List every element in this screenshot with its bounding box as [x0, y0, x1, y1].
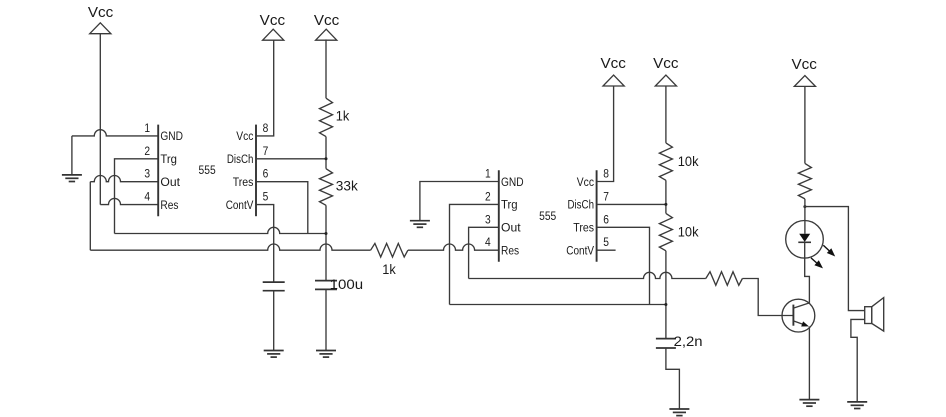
svg-text:8: 8: [263, 121, 269, 135]
wire R1 to DisCh junction to R2: [325, 137, 327, 169]
svg-text:7: 7: [603, 189, 609, 203]
wire pin1 GND to ground with hop: [72, 130, 158, 136]
capacitor C3 2,2n: [656, 339, 676, 348]
svg-text:Res: Res: [501, 244, 519, 258]
svg-text:4: 4: [485, 235, 491, 249]
capacitor C1: [263, 282, 285, 291]
speaker LS1 cone: [872, 298, 884, 332]
svg-text:1: 1: [485, 167, 491, 181]
resistor R5 10k vertical: [659, 213, 672, 250]
wire Res pin4 tied to Vcc stem: [100, 198, 158, 204]
junction dot 4: [664, 303, 667, 306]
ground under C2: [316, 351, 336, 358]
ground under second 555: [410, 221, 430, 228]
wire pin1 GND2 left and down: [420, 182, 499, 221]
junction dot 3: [664, 203, 667, 206]
wire Out2 pin3 left and down: [469, 227, 499, 278]
svg-text:2: 2: [144, 144, 150, 158]
LED light arrow 2: [811, 258, 817, 263]
svg-text:Vcc: Vcc: [88, 4, 114, 21]
svg-text:Out: Out: [160, 175, 180, 189]
wire node B Out line to 1k resistor: [90, 244, 370, 250]
svg-text:8: 8: [603, 167, 609, 181]
wire R2 to node A junction down to C2: [325, 205, 327, 280]
svg-text:Vcc: Vcc: [577, 175, 594, 189]
wire R7 to LED node: [804, 199, 806, 234]
power Vcc V4: [601, 55, 627, 86]
wire DisCh pin7 to resistor junction: [256, 158, 326, 160]
wire Trg2 pin2 left and down to node C: [450, 204, 499, 304]
transistor Q1 collector diagonal: [793, 303, 809, 308]
ground under C3: [669, 409, 689, 416]
svg-text:DisCh: DisCh: [227, 152, 254, 166]
svg-text:1k: 1k: [336, 107, 350, 123]
wire V3 to resistor R1: [325, 39, 327, 98]
svg-text:DisCh: DisCh: [568, 198, 595, 212]
svg-text:4: 4: [144, 190, 150, 204]
LED D1 circle: [786, 221, 824, 259]
svg-text:Vcc: Vcc: [653, 55, 679, 72]
op-amp U2 right bar: [596, 170, 598, 262]
svg-text:Vcc: Vcc: [260, 12, 286, 29]
svg-text:555: 555: [539, 209, 556, 223]
svg-text:Trg: Trg: [160, 152, 177, 166]
power Vcc V3: [314, 12, 340, 40]
wire C2 to ground: [325, 289, 327, 350]
resistor R1 1k vertical: [320, 98, 333, 136]
wire node A horizontal Trg-Tres-cap net: [115, 227, 327, 233]
wire R6 to transistor base: [742, 279, 793, 316]
wire C1 to ground: [273, 291, 275, 351]
wire node C horizontal to cap net: [450, 304, 666, 306]
wire LED cathode to collector: [805, 242, 810, 303]
svg-text:Out: Out: [501, 221, 521, 235]
svg-text:ContV: ContV: [566, 244, 594, 258]
resistor R2 33k vertical: [320, 169, 333, 206]
resistor R4 10k vertical: [659, 143, 672, 180]
svg-text:10k: 10k: [678, 223, 700, 239]
svg-text:5: 5: [603, 235, 609, 249]
ground under Q1: [799, 400, 819, 407]
svg-text:3: 3: [144, 167, 150, 181]
resistor R7 vertical: [798, 163, 811, 199]
wire pin8 Vcc2 stub up: [597, 86, 614, 182]
wire 1k to Res pin4 of second 555 with hops: [408, 244, 499, 250]
junction dot 2: [325, 232, 328, 235]
op-amp U1 left bar: [157, 125, 159, 217]
svg-text:Tres: Tres: [233, 175, 254, 189]
svg-text:Tres: Tres: [573, 221, 594, 235]
svg-text:1k: 1k: [382, 261, 396, 277]
svg-text:100u: 100u: [330, 276, 364, 292]
ground under first 555: [62, 175, 82, 182]
svg-text:2: 2: [485, 189, 491, 203]
wire Tres2 pin6 right and down to node C: [597, 227, 650, 304]
svg-text:10k: 10k: [678, 153, 700, 169]
svg-text:1: 1: [144, 121, 150, 135]
svg-text:33k: 33k: [336, 177, 359, 193]
svg-text:7: 7: [263, 144, 269, 158]
svg-text:GND: GND: [160, 129, 183, 143]
LED D1 diode triangle: [799, 234, 810, 242]
wire R4 to DisCh2 junction to R5: [665, 180, 667, 213]
wire ContV2 pin5 stub: [597, 249, 616, 251]
wire GND down segment: [71, 136, 73, 175]
wire R5 down to node C and C3: [665, 251, 667, 339]
svg-text:Vcc: Vcc: [236, 129, 253, 143]
power Vcc V5: [653, 55, 679, 86]
ground under speaker: [847, 402, 867, 409]
svg-text:6: 6: [263, 167, 269, 181]
svg-text:2,2n: 2,2n: [674, 333, 703, 349]
op-amp U2 left bar: [498, 170, 500, 262]
wire Vcc V1 stem to Res pin 4 node: [99, 34, 101, 205]
svg-text:3: 3: [485, 212, 491, 226]
svg-text:Trg: Trg: [501, 198, 518, 212]
svg-text:Res: Res: [160, 198, 178, 212]
svg-text:Vcc: Vcc: [601, 55, 627, 72]
junction dot 1: [325, 157, 328, 160]
wire Out down segment: [89, 182, 91, 251]
transistor Q1 base bar: [792, 305, 794, 326]
junction dot 5: [803, 205, 806, 208]
wire ContV pin5 to capacitor C1: [256, 205, 274, 283]
wire speaker bottom lead to ground: [851, 319, 865, 402]
op-amp U1 right bar: [255, 125, 257, 217]
wire V6 down to resistor R7: [804, 86, 806, 163]
power Vcc V1: [88, 4, 114, 34]
speaker LS1 body: [865, 307, 872, 324]
transistor Q1 circle: [782, 299, 815, 332]
svg-text:Vcc: Vcc: [314, 12, 340, 29]
LED D1 cathode bar: [798, 241, 811, 243]
wire Tres pin6 right and down to node A: [256, 182, 308, 234]
transistor Q1 emitter diagonal: [793, 321, 806, 326]
svg-text:555: 555: [199, 163, 216, 177]
wire C3 to ground with jog: [666, 348, 680, 409]
wire Out2 line to base resistor with hops: [469, 272, 706, 278]
wire V5 to resistor R4: [665, 86, 667, 143]
wire LED node branch to speaker: [805, 207, 865, 311]
svg-text:GND: GND: [501, 175, 524, 189]
wire Trg pin2 net: left and down to node A: [115, 159, 159, 234]
svg-text:5: 5: [263, 190, 269, 204]
resistor R3 1k horizontal: [371, 243, 408, 257]
resistor R6 base resistor horizontal: [706, 272, 743, 286]
wire emitter to ground: [808, 326, 810, 399]
power Vcc V6: [792, 56, 818, 86]
power Vcc V2: [260, 12, 286, 40]
svg-text:6: 6: [603, 212, 609, 226]
ground under C1: [264, 351, 284, 358]
svg-text:ContV: ContV: [226, 198, 254, 212]
LED light arrow 1: [823, 245, 829, 251]
wire pin8 Vcc stub up: [256, 40, 274, 136]
wire DisCh2 pin7 to 10k junction: [597, 203, 666, 205]
wire Out pin3 left with hops: [90, 175, 158, 181]
svg-text:Vcc: Vcc: [792, 56, 818, 73]
capacitor C2 100u: [315, 281, 337, 290]
